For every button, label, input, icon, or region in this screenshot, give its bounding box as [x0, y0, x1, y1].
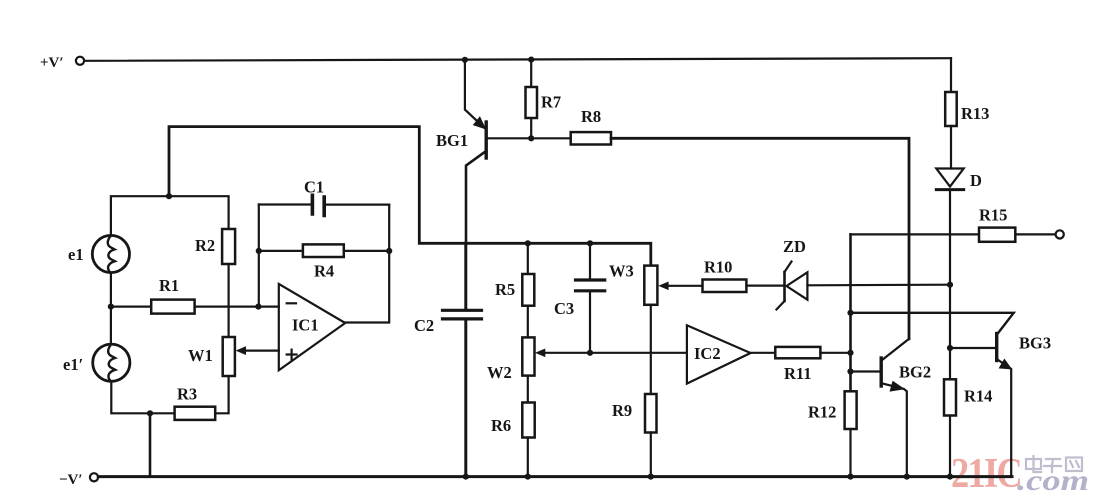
wire W2 wiper to IC2 input	[544, 352, 687, 354]
resistor R13	[945, 58, 989, 168]
svg-text:R10: R10	[704, 258, 732, 277]
svg-text:BG2: BG2	[899, 363, 931, 382]
resistor R5	[495, 243, 534, 337]
svg-text:R4: R4	[314, 262, 334, 281]
node C3 top	[587, 240, 593, 246]
-V terminal	[59, 472, 98, 488]
svg-text:W1: W1	[188, 346, 213, 365]
resistor R6	[491, 376, 535, 477]
node R3 line to rail	[147, 410, 153, 416]
svg-text:e1: e1	[68, 245, 84, 264]
node R4 right	[386, 248, 392, 254]
wire output line R15	[851, 233, 980, 235]
node rail-BG1	[462, 57, 468, 63]
potentiometer W1	[188, 337, 279, 376]
svg-text:R3: R3	[177, 385, 197, 404]
svg-text:R9: R9	[612, 401, 632, 420]
node R5 top	[525, 240, 531, 246]
svg-text:C2: C2	[414, 316, 434, 335]
resistor R4	[259, 244, 389, 280]
node R12 bottom rail	[847, 474, 853, 480]
svg-text:R7: R7	[541, 93, 561, 112]
svg-text:R6: R6	[491, 416, 511, 435]
svg-text:C3: C3	[554, 299, 574, 318]
node C2 bottom rail	[463, 474, 469, 480]
resistor R3	[175, 385, 216, 420]
svg-text:R12: R12	[808, 403, 836, 422]
wire down to -V rail	[149, 413, 152, 476]
node base-R7	[528, 135, 534, 141]
node ZD line to D line	[947, 282, 953, 288]
transistor BG2	[851, 339, 932, 477]
wire e1 to e1'	[110, 273, 112, 345]
zener diode ZD	[777, 237, 951, 310]
svg-text:R11: R11	[784, 364, 812, 383]
svg-text:R15: R15	[979, 206, 1007, 225]
svg-text:W2: W2	[487, 363, 512, 382]
node R11 out	[847, 350, 853, 356]
svg-text:BG3: BG3	[1019, 334, 1051, 353]
svg-text:BG1: BG1	[436, 131, 468, 150]
svg-text:.com: .com	[1017, 464, 1089, 497]
op-amp IC1	[279, 284, 345, 370]
svg-text:−V′: −V′	[59, 472, 83, 488]
output terminal	[1056, 230, 1064, 238]
node BG2 emitter rail	[904, 474, 910, 480]
wire R3 to W1	[215, 376, 228, 413]
wire C1 loop right vertical / IC1 output	[345, 205, 389, 323]
node R4 left	[256, 248, 262, 254]
capacitor C1	[259, 178, 389, 216]
+V terminal	[40, 55, 84, 71]
svg-text:+V′: +V′	[40, 55, 64, 71]
wire R8 to BG2 collector	[611, 138, 909, 338]
wire e1' bottom to R3	[111, 381, 174, 413]
svg-text:R14: R14	[964, 387, 992, 406]
resistor R14	[944, 379, 992, 476]
node R9 bottom rail	[648, 474, 654, 480]
resistor R12	[808, 391, 857, 476]
svg-text:C1: C1	[304, 178, 324, 197]
wire right bus x=850	[849, 234, 852, 391]
capacitor C3	[554, 243, 605, 352]
resistor R9	[612, 305, 657, 477]
node R14 bottom rail	[947, 474, 953, 480]
resistor R11	[751, 347, 851, 383]
node bridge left mid	[108, 304, 114, 310]
resistor R8	[571, 107, 611, 145]
resistor R15	[979, 206, 1056, 242]
wire bottom -V rail	[98, 475, 1012, 478]
svg-text:e1′: e1′	[63, 355, 83, 374]
resistor R7	[526, 60, 562, 139]
wire C1 loop left vertical	[258, 205, 260, 307]
potentiometer W2	[487, 337, 545, 382]
resistor R1	[111, 276, 279, 314]
diode D	[936, 169, 982, 380]
svg-text:D: D	[970, 171, 982, 190]
node C3 bottom	[587, 350, 593, 356]
svg-text:R1: R1	[159, 276, 179, 295]
transistor BG3	[851, 313, 1052, 477]
sensor e1	[68, 235, 130, 272]
potentiometer W3	[609, 262, 703, 305]
svg-text:R5: R5	[495, 280, 515, 299]
svg-text:R2: R2	[195, 236, 215, 255]
svg-text:W3: W3	[609, 262, 634, 281]
wire bridge top	[111, 196, 229, 235]
wire feedback bus (bridge top to BG1 collector and divider)	[169, 127, 651, 266]
svg-text:R8: R8	[581, 107, 601, 126]
svg-text:IC2: IC2	[694, 344, 721, 363]
svg-text:R13: R13	[961, 104, 989, 123]
resistor R2	[195, 229, 235, 337]
wire top +V rail	[84, 58, 951, 61]
resistor R10	[703, 258, 785, 293]
node BG2 base	[847, 368, 853, 374]
op-amp IC2	[687, 325, 751, 383]
node inverting input	[255, 304, 261, 310]
svg-text:IC1: IC1	[292, 316, 319, 335]
sensor e1'	[63, 344, 130, 381]
capacitor C2	[414, 243, 482, 476]
transistor BG1	[436, 60, 571, 244]
watermark 21IC.com logo	[951, 451, 1089, 497]
node BG3 base tee	[947, 345, 953, 351]
node feedback-bridge	[166, 193, 172, 199]
node R6 bottom rail	[525, 474, 531, 480]
node BG3 collector line	[847, 310, 853, 316]
svg-text:ZD: ZD	[783, 237, 806, 256]
node rail-R7	[528, 57, 534, 63]
